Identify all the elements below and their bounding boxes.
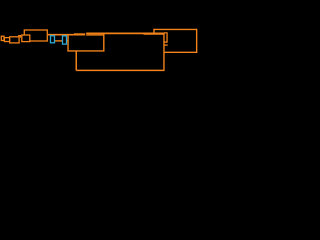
wire M vertical — [67, 34, 69, 51]
wire L2 — [86, 32, 164, 34]
wire L1 — [47, 34, 85, 36]
tab corner — [19, 36, 21, 38]
wire L4 — [144, 33, 165, 35]
box S — [24, 30, 47, 41]
box B2 — [164, 33, 167, 42]
box A left — [153, 29, 155, 34]
wire G vertical — [103, 33, 105, 51]
wire mid — [54, 40, 68, 42]
box A right — [196, 29, 198, 53]
box P — [4, 38, 9, 42]
background — [0, 0, 200, 88]
wire L3 — [86, 34, 104, 36]
wire L1b overlap — [74, 33, 85, 35]
box A bottom — [164, 51, 197, 53]
box T1 — [1, 36, 4, 40]
wire F horizontal — [67, 50, 104, 52]
box Q — [10, 37, 19, 43]
stub wire — [165, 44, 168, 46]
cyan box 1 — [51, 36, 55, 43]
box A top — [153, 28, 196, 30]
wire V1 vertical — [163, 33, 165, 71]
box R — [22, 35, 30, 42]
cyan box 2 — [63, 36, 67, 44]
wire I bottom — [76, 69, 164, 71]
wire H vertical — [75, 51, 77, 71]
